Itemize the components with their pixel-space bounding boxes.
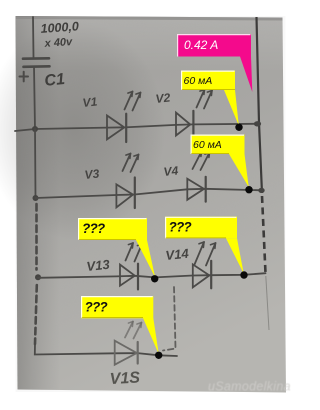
svg-text:V13: V13 bbox=[86, 257, 111, 274]
LED V15 bbox=[115, 322, 142, 365]
LED V1 bbox=[107, 92, 141, 143]
current callout ??? V14 bbox=[165, 217, 244, 274]
node row1-right junction bbox=[254, 121, 261, 126]
current callout 60 mA row1 bbox=[181, 71, 239, 126]
node dot row2 anchor bbox=[245, 186, 252, 193]
node dot V14 anchor bbox=[240, 271, 247, 278]
wire row3 bbox=[38, 273, 266, 278]
svg-text:V1: V1 bbox=[82, 94, 98, 109]
wire row2 bbox=[36, 189, 263, 198]
current callout 60 mA row2 bbox=[191, 135, 249, 188]
svg-text:V2: V2 bbox=[155, 90, 171, 105]
wire left rail row1-row2 bbox=[34, 129, 37, 198]
wire left rail dashed row2-row3 bbox=[35, 204, 38, 270]
LED V13 bbox=[120, 243, 142, 289]
svg-text:x 40v: x 40v bbox=[43, 36, 73, 50]
svg-text:V4: V4 bbox=[163, 163, 179, 178]
LED V14 bbox=[193, 242, 216, 288]
wire capacitor top lead bbox=[32, 17, 35, 58]
wire dashed drop to V15 bbox=[163, 287, 176, 351]
current callout ??? V15 bbox=[81, 296, 159, 354]
node dot V13 anchor bbox=[151, 275, 158, 282]
node dot V15 anchor bbox=[155, 352, 162, 359]
svg-text:60 мА: 60 мА bbox=[184, 75, 213, 87]
capacitor C1 bbox=[23, 58, 50, 67]
svg-text:V14: V14 bbox=[165, 246, 190, 263]
wire capacitor to row1 bbox=[34, 67, 35, 130]
svg-text:60 мА: 60 мА bbox=[193, 139, 222, 151]
svg-text:1000,0: 1000,0 bbox=[40, 19, 79, 36]
node row2-right junction bbox=[258, 188, 264, 193]
plus polarity mark bbox=[20, 72, 29, 82]
node dot row1 anchor bbox=[235, 124, 242, 131]
wire left rail dashed row3-bottom bbox=[35, 285, 37, 344]
node row1-left junction bbox=[32, 126, 38, 132]
svg-text:???: ??? bbox=[82, 221, 105, 236]
svg-text:V3: V3 bbox=[84, 166, 100, 181]
svg-text:0.42 A: 0.42 A bbox=[184, 38, 218, 52]
svg-text:???: ??? bbox=[85, 300, 108, 315]
svg-text:uSamodelkina: uSamodelkina bbox=[208, 380, 291, 394]
wire row1 bbox=[35, 124, 258, 129]
value label 1000,0 x40v bbox=[40, 19, 79, 50]
current callout ??? V13 bbox=[78, 218, 155, 278]
node row3-left junction bbox=[35, 274, 41, 280]
paper photo bbox=[16, 16, 287, 393]
LED V2 bbox=[176, 90, 212, 138]
LED V4 bbox=[187, 152, 209, 202]
current callout 0.42 A bbox=[177, 34, 252, 92]
wire bottom-left corner bbox=[35, 344, 177, 356]
svg-text:???: ??? bbox=[169, 220, 192, 235]
LED V3 bbox=[116, 154, 138, 209]
svg-text:C1: C1 bbox=[44, 71, 66, 90]
wire row1 left stub bbox=[15, 129, 35, 131]
svg-text:V1S: V1S bbox=[109, 369, 140, 388]
page edge line right bbox=[257, 17, 270, 330]
node row2-left junction bbox=[33, 195, 39, 201]
